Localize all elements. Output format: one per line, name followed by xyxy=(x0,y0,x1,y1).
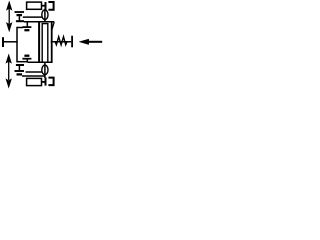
trimmer capacitor C1: thick plate xyxy=(17,14,23,16)
wire rail top corner xyxy=(17,27,23,29)
wire W2a (crystal Y2 to left) xyxy=(26,71,42,73)
wire W1a (to crystal Y1) xyxy=(23,16,42,18)
wire input xyxy=(3,41,18,43)
resistor R2 (tall vertical box) xyxy=(42,24,48,63)
trimmer capacitor C5: wide plate xyxy=(15,70,25,72)
crystal Y1 (oval with electrode line) xyxy=(42,9,48,22)
wire right bar of column xyxy=(51,22,53,63)
capacitor C4: wide plate xyxy=(22,58,31,60)
input terminal bar xyxy=(2,37,4,47)
capacitor C2 open-box plate xyxy=(48,2,53,10)
capacitor C3 (upper shunt): stem xyxy=(26,22,28,27)
wire diagonal jog at top of right bar xyxy=(52,22,54,30)
trimmer capacitor C5 (bottom-left): top bar xyxy=(16,64,24,66)
wire left bar of column xyxy=(38,22,40,63)
capacitor C4 (lower shunt): thick plate xyxy=(24,55,29,57)
output terminal bar xyxy=(71,36,73,48)
resistor R4 (zigzag) xyxy=(55,37,67,45)
wire R1 to capacitor C2 xyxy=(42,5,45,7)
arrow (signal direction, pointing left) xyxy=(79,39,102,44)
trimmer capacitor C1: stem xyxy=(18,16,20,20)
trimmer capacitor C5: thick plate xyxy=(17,73,23,75)
capacitor C3: wide plate xyxy=(22,26,31,28)
capacitor C6 open-box plate xyxy=(48,78,53,86)
capacitor C6 straight plate (bottom-right) xyxy=(45,77,47,85)
capacitor C2 straight plate (top-right) xyxy=(45,2,47,10)
trimmer capacitor C5: stem xyxy=(18,66,20,70)
wire output through resistor xyxy=(51,41,71,43)
wire left rail xyxy=(16,27,18,63)
arrow (double-headed, top-left tuning arrow) xyxy=(7,2,12,31)
resistor R3 (bottom box) xyxy=(27,78,42,85)
capacitor C4: stem xyxy=(26,60,28,63)
trimmer capacitor C1 (top-left): wide plate xyxy=(15,11,25,13)
wire top node xyxy=(24,21,54,23)
capacitor C3: thick plate xyxy=(24,29,29,31)
arrow (double-headed, bottom-left tuning arrow) xyxy=(6,55,11,88)
resistor R1 (top box) xyxy=(27,2,42,9)
crystal Y2 (oval with electrode line) xyxy=(42,62,48,78)
wire rail bottom corner xyxy=(17,61,28,63)
wire bottom node xyxy=(27,61,52,63)
wire W2b (lower horizontal) xyxy=(22,75,45,77)
trimmer capacitor C1: bottom bar xyxy=(16,20,24,22)
wire R3 to capacitor C6 xyxy=(42,81,45,83)
